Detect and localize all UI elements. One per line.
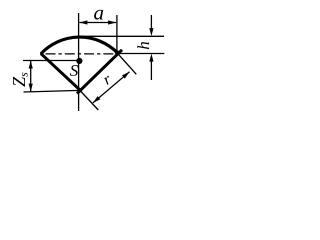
dimension r: dimension line <box>93 72 130 103</box>
dimension h: bottom extension line (chord level) <box>118 53 165 55</box>
sector right radius edge (overshoot past both ends) <box>77 50 122 94</box>
dimension h: upper arrowhead (points down) <box>149 28 153 36</box>
node: right vertex knot <box>115 50 119 54</box>
dimension r: lower arrowhead <box>93 96 101 103</box>
vertical centre axis <box>78 13 80 111</box>
dimension Zs: bottom arrowhead (points down) <box>29 84 33 92</box>
dimension a: right extension line <box>116 15 118 52</box>
svg-text:Zs: Zs <box>9 72 31 87</box>
svg-text:h: h <box>134 41 153 50</box>
dimension Zs: bottom extension line (apex level) <box>24 90 81 92</box>
dimension h: lower arrowhead (points up) <box>149 54 153 62</box>
sector arc (top boundary of circular-sector section) <box>41 37 117 54</box>
dimension h: top extension line (arc crest level) <box>79 35 164 37</box>
dimension Zs: top extension line (centroid level) <box>23 60 79 62</box>
node: apex knot <box>78 88 82 92</box>
dimension a: left arrowhead <box>79 20 87 24</box>
dimension r: extension line at right vertex <box>118 53 137 74</box>
centroid dot S <box>76 58 82 64</box>
dimension h: lower arrow shaft <box>150 59 152 80</box>
svg-text:r: r <box>100 71 115 89</box>
svg-text:S: S <box>70 61 79 80</box>
horizontal dash-dot centre line at chord level <box>46 53 118 55</box>
node: left vertex knot <box>40 52 43 55</box>
dimension r: upper arrowhead <box>122 72 130 79</box>
dimension Zs: dimension line <box>30 61 32 92</box>
dimension Zs: top arrowhead (points up) <box>29 61 33 69</box>
svg-text:a: a <box>94 0 105 24</box>
dimension a: right arrowhead <box>108 20 116 24</box>
dimension h: upper arrow shaft <box>150 15 152 30</box>
sector left radius edge <box>41 54 81 92</box>
dimension r: extension line at apex <box>81 92 98 110</box>
dimension a: dimension line <box>79 22 116 24</box>
